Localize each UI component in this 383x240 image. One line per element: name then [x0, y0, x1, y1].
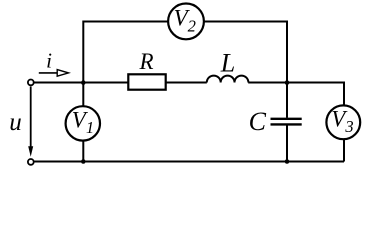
voltmeter V1	[66, 106, 100, 140]
voltage arrow u	[30, 87, 32, 151]
svg-text:u: u	[9, 109, 22, 136]
wire: inductor to right vertical and on to V3 branch corner	[248, 82, 344, 84]
wire: middle wire from input terminal to resistor	[34, 82, 129, 84]
wire: top wire from left corner to right corner	[83, 21, 287, 23]
inductor L	[207, 76, 249, 83]
junction node: middle-left	[81, 80, 86, 85]
svg-text:i: i	[46, 49, 52, 73]
wire: V3 branch vertical	[343, 82, 345, 162]
wire: right vertical lower segment (capacitor bottom plate to bottom wire)	[286, 125, 288, 161]
resistor R	[128, 74, 165, 89]
capacitor C bottom plate	[271, 123, 302, 125]
wire: resistor to inductor	[166, 82, 207, 84]
wire: left vertical from top corner down through V1 branch to bottom wire	[82, 21, 84, 162]
voltmeter V3	[326, 105, 360, 139]
svg-text:C: C	[249, 107, 267, 136]
junction node: bottom-left (V1 branch)	[81, 159, 86, 164]
svg-text:L: L	[220, 49, 235, 78]
voltmeter V2	[168, 4, 204, 40]
input terminal: top	[28, 80, 34, 86]
current arrow i	[39, 72, 58, 74]
input terminal: bottom	[28, 159, 34, 165]
capacitor C top plate	[271, 118, 302, 120]
junction node: middle-right	[285, 80, 290, 85]
wire: bottom wire	[34, 161, 345, 163]
svg-text:R: R	[138, 49, 153, 74]
junction node: bottom-right (capacitor branch)	[285, 159, 290, 164]
wire: right vertical upper segment (top corner to capacitor top plate)	[286, 21, 288, 118]
